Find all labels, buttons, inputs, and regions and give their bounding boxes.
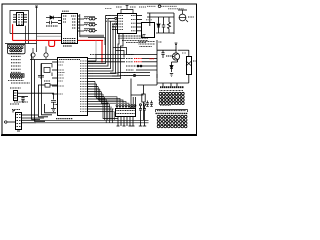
red label TXD bbox=[134, 61, 142, 63]
nest of wires MCU bottom to DIP bbox=[95, 55, 129, 123]
wire y=50 bbox=[157, 49, 176, 51]
wire gray y=36 bbox=[37, 35, 61, 37]
diode D3 vertical bbox=[170, 62, 173, 72]
serial rows TXD/RXD lower bbox=[110, 73, 157, 96]
reset parts left of MCU bbox=[38, 81, 57, 87]
pin numbers outside MCU right edge bbox=[89, 64, 93, 79]
U2 label bbox=[62, 10, 69, 12]
U4 bottom pins to ground bbox=[117, 117, 135, 127]
U1 pins left with bubbles bbox=[112, 16, 117, 30]
red wire vertical to MCU bbox=[101, 40, 103, 62]
resistor R2 vertical bbox=[168, 17, 171, 33]
capacitor C12 above J5 bbox=[150, 101, 153, 107]
J3 left pin circle bbox=[5, 121, 7, 123]
connector J2 (small, left) bbox=[11, 74, 25, 79]
J1 hatch bbox=[9, 45, 24, 47]
connector J4 (right, upper) bbox=[159, 87, 184, 104]
Vcc symbol top-left bbox=[35, 6, 38, 9]
title text bbox=[147, 5, 156, 7]
corner hook wires right of bundle bbox=[113, 48, 127, 58]
U3 internal right labels bbox=[80, 61, 87, 112]
wire bundle U1 to MCU bbox=[88, 16, 123, 79]
text rows below J2 bbox=[8, 81, 30, 88]
label right of U7 bbox=[188, 16, 194, 18]
red label RXD bbox=[134, 58, 154, 60]
wire pair below optos bbox=[80, 34, 104, 36]
transistor-like part A bbox=[31, 53, 35, 57]
U2 pins right bbox=[78, 16, 80, 31]
red wire vertical left bbox=[12, 24, 14, 40]
resistor R4 (left of connectors) bbox=[137, 85, 157, 120]
red wire bus horizontal bbox=[13, 39, 61, 41]
J3 ground below bbox=[17, 130, 20, 132]
vertical bus right of U2 bbox=[79, 14, 81, 37]
capacitor C4 + ground below MCU-left bbox=[51, 101, 56, 112]
left vertical bus lines bbox=[32, 54, 57, 122]
regulator U6 bbox=[10, 91, 32, 105]
wire bottom y=83 bbox=[157, 82, 189, 84]
component above J3 bbox=[14, 102, 57, 105]
U3 internal left labels bbox=[59, 62, 66, 94]
U2 pins left bbox=[58, 18, 61, 24]
MCU U3 bbox=[52, 58, 113, 119]
text row top-right of U1 bbox=[139, 6, 146, 8]
resistor R1 bbox=[46, 25, 58, 27]
U3 right pin rows bbox=[88, 61, 113, 112]
red loop jumper bbox=[49, 40, 55, 46]
J3 top wire bbox=[13, 111, 15, 113]
wire across y=93 bbox=[32, 93, 54, 99]
U6 label below bbox=[10, 103, 19, 105]
capacitor C5 bbox=[22, 96, 24, 97]
crystal + caps right of U4 bbox=[139, 104, 146, 126]
cap C7 bbox=[161, 50, 164, 58]
wire top of J1 bbox=[5, 43, 37, 45]
J1 pins row1 bbox=[9, 47, 24, 52]
capacitor C11 above J5 bbox=[146, 101, 149, 107]
IC U1 (top-middle) bbox=[106, 14, 142, 34]
IC U5 (top-left DIP) bbox=[13, 13, 27, 26]
U4 label left bbox=[107, 108, 114, 110]
wire Vcc down bbox=[36, 9, 38, 52]
long bus lines bottom bbox=[36, 119, 149, 121]
relay K1 bbox=[187, 57, 192, 75]
capacitor C9 C10 above U1 bbox=[116, 6, 122, 8]
optocoupler row 3 bbox=[80, 29, 97, 32]
wire loop around U5 bbox=[10, 11, 29, 44]
J3 label above bbox=[12, 109, 20, 111]
wire U1 top bbox=[121, 10, 133, 14]
right mid section: relay driver bbox=[157, 40, 196, 87]
crystal Y1 bbox=[44, 68, 50, 73]
U3 label below bbox=[56, 118, 73, 120]
wire row bbox=[147, 12, 174, 14]
MCU right pin top labels bbox=[90, 55, 136, 71]
U1 pins right bbox=[137, 16, 142, 31]
U3 pins left bbox=[52, 62, 57, 94]
wires J3 to bus bbox=[22, 115, 44, 123]
Vcc arrow bbox=[175, 43, 177, 47]
K1 label bbox=[193, 60, 196, 62]
part B bbox=[44, 53, 48, 57]
capacitor C6 vertical bbox=[162, 17, 165, 33]
capacitor C1 bbox=[46, 21, 58, 24]
gray wire down to MCU pin bbox=[95, 41, 97, 55]
transistor Q1 bbox=[172, 53, 179, 60]
wire across y=59.5 bbox=[30, 59, 57, 61]
optocoupler row 1 bbox=[80, 17, 97, 20]
IC U2 (tall box) bbox=[58, 11, 80, 46]
crystal circuit left of MCU bbox=[30, 46, 57, 79]
optocoupler row 2 bbox=[80, 23, 97, 26]
T1 label rows below bbox=[139, 41, 156, 43]
U5 pin stubs left bbox=[13, 15, 27, 22]
ground under D3 bbox=[170, 73, 173, 75]
connector J1 (left DB) bbox=[5, 44, 37, 54]
wire from U6 right bbox=[18, 92, 32, 94]
Vcc arrow above U1 bbox=[126, 6, 129, 9]
border frame bbox=[2, 4, 197, 135]
wire horizontal y=33.5 bbox=[10, 33, 61, 35]
black wire parallel to red bbox=[88, 38, 105, 45]
wires MCU to right rows bbox=[88, 55, 157, 71]
label block below U1 bbox=[118, 36, 148, 43]
transformer T1 box bbox=[142, 23, 155, 38]
IC U4 (bottom DIP) bbox=[107, 105, 136, 126]
red wire bus horizontal right of U2 bbox=[78, 39, 103, 41]
small label left of U1 top bbox=[105, 8, 112, 10]
border bottom thick line bbox=[1, 134, 197, 136]
pin list ladder bbox=[11, 53, 21, 72]
U2 label below bbox=[63, 45, 72, 47]
diode D2 vertical bbox=[157, 17, 160, 33]
U1 pin labels left bbox=[106, 16, 111, 22]
U3 title bbox=[59, 59, 80, 61]
wire U5 right to vertical bbox=[25, 26, 27, 44]
ground bar power bbox=[156, 32, 174, 34]
power section top right bbox=[139, 5, 195, 47]
wires down to J5 bbox=[130, 95, 137, 108]
circle glyph on serial row bbox=[133, 74, 135, 76]
vertical feed line bbox=[156, 40, 158, 78]
ground under C5 bbox=[22, 100, 25, 102]
resistor R3 horizontal bbox=[166, 55, 172, 57]
connector J5 (right, lower) bbox=[156, 105, 188, 127]
caps C2 C3 bbox=[38, 75, 44, 77]
connector J3 (bottom-left) bbox=[4, 110, 22, 132]
U4 top pins with circles bbox=[116, 105, 136, 108]
diode D1 (left of U2) bbox=[46, 16, 58, 19]
regulator U7 (TO package circle) bbox=[179, 14, 186, 21]
